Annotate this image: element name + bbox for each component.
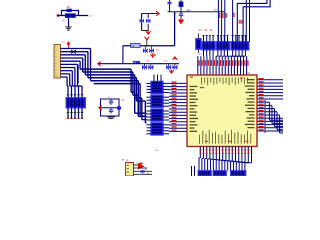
resistor pack RP6 <box>202 42 215 51</box>
svg-text:44: 44 <box>199 30 202 32</box>
resistor pack RP4 <box>151 109 163 122</box>
IC U1 body <box>187 75 257 147</box>
connector J2 body <box>126 163 134 177</box>
wire bus band to packs <box>61 49 147 123</box>
power port node (red dot) <box>57 14 60 17</box>
junction ticks above RP1 <box>67 94 83 96</box>
wire bend up-right <box>174 12 176 46</box>
power port arrow left <box>98 61 101 66</box>
wire stub bottom left <box>192 166 195 176</box>
wire rail upper <box>123 45 175 47</box>
wire rail lower <box>99 63 180 65</box>
resistor pack RP1 <box>66 98 86 109</box>
power port arrow left gnd loop <box>99 106 102 111</box>
svg-text:8: 8 <box>89 16 91 18</box>
wires below U1 <box>199 146 252 170</box>
value label R2 <box>199 54 203 56</box>
junction dot rail <box>146 45 148 47</box>
net label J2 pin2 <box>145 169 148 171</box>
resistor pack RP5 <box>151 123 163 136</box>
wire clamp bottom <box>142 14 149 31</box>
wires below RP1 <box>68 108 82 119</box>
wire J2 pin1 <box>134 163 142 165</box>
resistor pack RP11 <box>231 171 246 177</box>
IC U1 refdes <box>247 72 251 75</box>
diode D2 <box>146 19 150 23</box>
wire corner bend 1 <box>237 0 267 42</box>
inductor L1 on rail <box>131 43 141 47</box>
net labels left of U1 (red) <box>172 82 177 131</box>
net labels on verticals (red) <box>219 13 243 24</box>
resistor pack RP9 <box>198 171 211 177</box>
wire vertical from top 2 <box>221 0 223 42</box>
net label XTAL <box>89 16 91 18</box>
net labels above U1 (red) <box>199 60 249 66</box>
crystal Y1 <box>65 13 76 18</box>
net label blue <box>133 61 140 64</box>
ground symbol <box>66 27 72 30</box>
svg-text:1M: 1M <box>67 7 70 9</box>
svg-text:104: 104 <box>156 50 160 52</box>
wire vertical from top 1 <box>217 0 219 42</box>
svg-text:a41: a41 <box>155 150 159 152</box>
polarized cap C15 <box>117 100 125 111</box>
wires into U1 top pins <box>198 56 247 74</box>
wire gnd loop rect <box>101 99 120 116</box>
wires right of U1 <box>258 80 284 133</box>
net stubs below RP1 <box>67 118 83 120</box>
svg-text:a2: a2 <box>145 169 148 171</box>
net label faint <box>155 150 159 152</box>
resistor R2 vertical <box>196 34 202 54</box>
resistor pack RP2 <box>151 81 163 94</box>
power arrow J2 <box>138 163 145 170</box>
junction column right <box>264 100 265 133</box>
net label RP1 <box>87 99 89 101</box>
power port arrow down c7c8 <box>151 53 156 57</box>
net label rail <box>187 10 218 13</box>
capacitor C9 <box>142 64 147 70</box>
capacitor C6 <box>179 12 183 19</box>
wire J2 pin2 <box>134 167 148 169</box>
value label C11 <box>164 61 168 63</box>
capacitor C8 <box>149 46 154 53</box>
wire J2 pin4 <box>134 173 153 175</box>
ground bars below loop <box>107 117 115 119</box>
svg-text:a: a <box>87 99 89 101</box>
svg-text:P1: P1 <box>62 42 65 44</box>
svg-text:4.7: 4.7 <box>63 21 67 23</box>
svg-text:104: 104 <box>146 61 150 63</box>
capacitor C7 <box>143 46 148 53</box>
resistor pack RP8 <box>231 42 249 51</box>
value label R1 <box>67 7 70 9</box>
net labels below U1 (red) <box>200 149 253 154</box>
power port arrow right <box>156 11 159 16</box>
power rail wire <box>168 11 226 13</box>
junction ticks below RP1 <box>67 112 83 114</box>
resistor pack RP7 <box>216 42 229 51</box>
wire to ground <box>68 18 70 27</box>
pin numbers J1 <box>55 47 58 78</box>
wire clamp left rail <box>141 14 143 31</box>
capacitor C11 <box>166 64 171 70</box>
value label C9 <box>146 61 150 63</box>
wire bend down-left <box>122 46 124 64</box>
refdes J2 <box>122 159 129 162</box>
capacitor C10 <box>148 64 153 70</box>
capacitor C14 bottom <box>109 108 113 114</box>
wires around top packs <box>202 36 246 57</box>
IC U1 pin names <box>190 77 255 144</box>
net labels right of U1 (red) <box>259 78 264 130</box>
value label C7C8 <box>156 50 160 52</box>
svg-text:1M: 1M <box>214 10 217 12</box>
net label RP2 <box>153 79 155 81</box>
power port arrow up J1 pin1 <box>66 41 70 48</box>
value label C13 <box>108 97 111 99</box>
svg-text:J2: J2 <box>126 160 129 162</box>
svg-text:4S: 4S <box>205 30 208 32</box>
resistor R1 on loop <box>67 9 72 12</box>
wire mid <box>101 107 120 109</box>
power port arrow down big <box>178 19 184 25</box>
power port arrow up <box>173 57 178 60</box>
diode D1 <box>140 19 144 23</box>
wires rail to RP2 top <box>154 75 161 82</box>
wire J2 pin3 <box>134 170 153 172</box>
svg-text:10u: 10u <box>164 61 168 63</box>
pack column pin wires <box>147 83 170 133</box>
power port arrow down onto rail <box>145 37 150 46</box>
svg-text:18: 18 <box>210 30 213 32</box>
value label Y1 <box>63 21 67 23</box>
no-connect X pin2 <box>71 50 76 53</box>
junction dot <box>180 11 182 13</box>
wire clamp top <box>142 13 158 15</box>
net label J2 pin3 <box>147 173 150 175</box>
connector J1 body <box>54 45 61 79</box>
wire bus J1 staircase lower <box>61 64 83 97</box>
diode D3 vertical <box>168 0 172 12</box>
net label J1 <box>62 42 65 44</box>
wire corner bend 2 <box>243 0 270 42</box>
resistor pack RP10 <box>213 171 226 177</box>
wire feedback loop <box>62 11 79 16</box>
wire vertical from top 4 <box>232 0 234 42</box>
wire main horizontal <box>58 15 88 17</box>
resistor pack RP3 <box>151 95 163 108</box>
wires packs to U1 left pins <box>169 83 187 131</box>
capacitor C5 vertical <box>179 0 184 12</box>
capacitor C13 top <box>109 99 113 105</box>
power port arrow down <box>146 31 151 35</box>
wire vertical from top 3 <box>224 0 226 42</box>
value label C6 <box>174 14 178 16</box>
value label RP6 <box>199 30 213 32</box>
power port arrow down decouple <box>169 70 174 73</box>
svg-text:4k7: 4k7 <box>199 54 203 56</box>
capacitor C12 <box>172 64 177 70</box>
capacitor C16 on J2 pin3 <box>141 170 145 174</box>
svg-text:4B: 4B <box>122 100 125 102</box>
wire vertical right group <box>246 0 249 42</box>
